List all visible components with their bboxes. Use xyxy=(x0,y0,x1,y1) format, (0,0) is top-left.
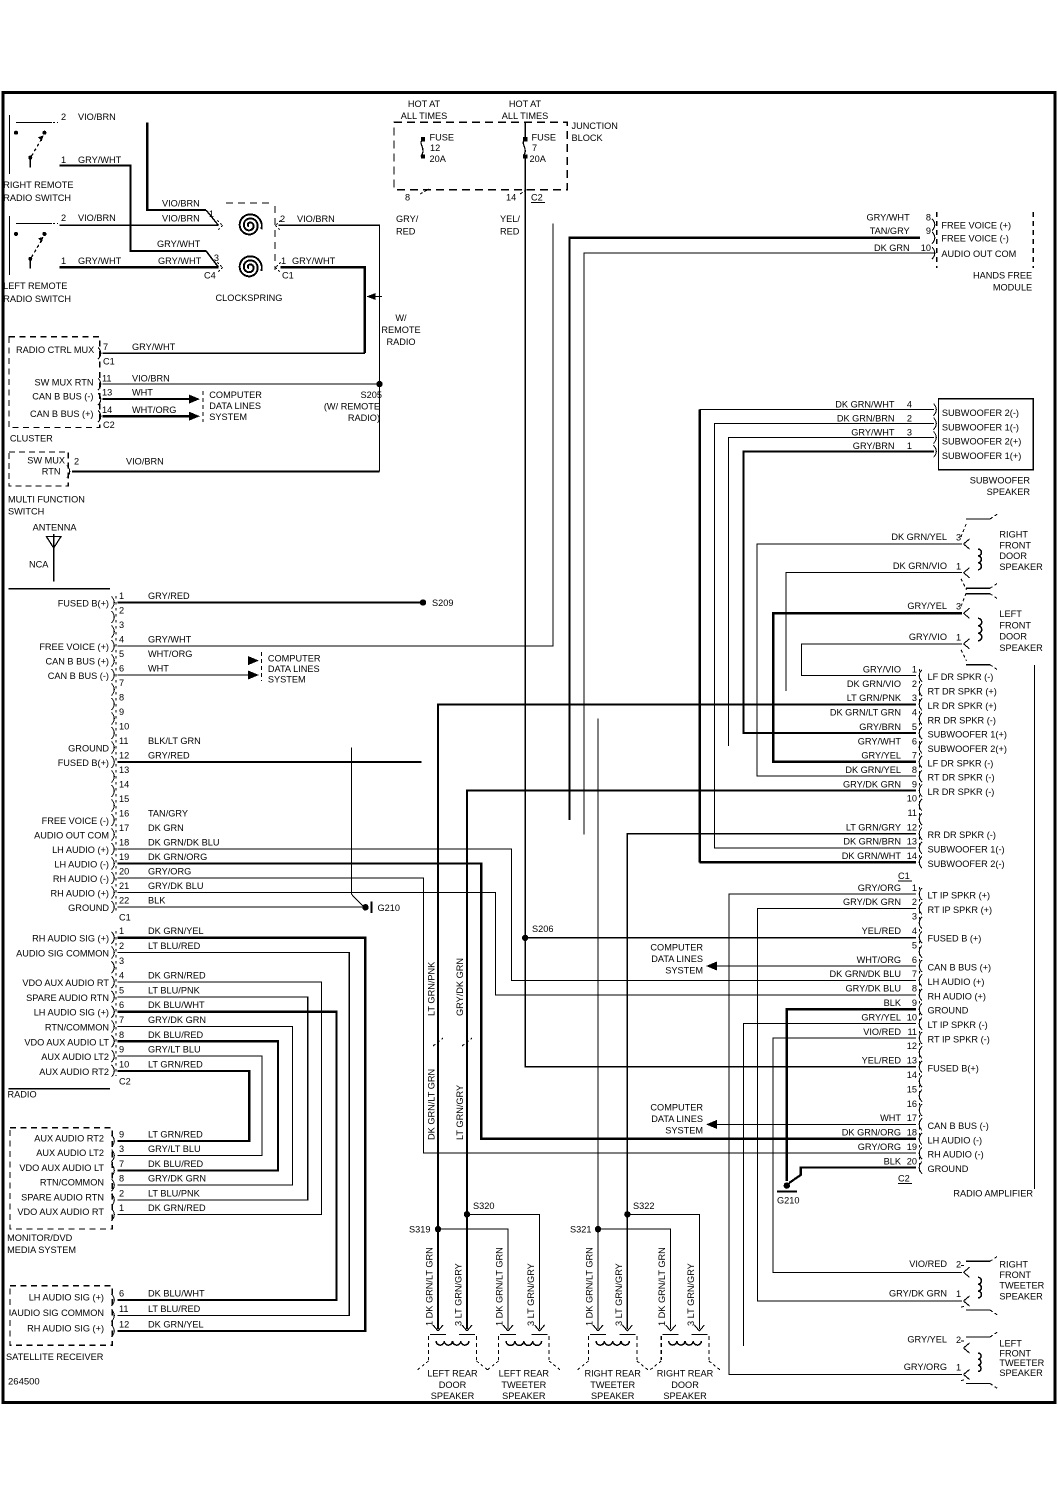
svg-text:5: 5 xyxy=(912,722,917,732)
svg-text:DK BLU/RED: DK BLU/RED xyxy=(148,1159,204,1169)
svg-text:S205: S205 xyxy=(361,390,382,400)
svg-text:DK GRN: DK GRN xyxy=(148,823,184,833)
svg-text:GRY/YEL: GRY/YEL xyxy=(861,751,901,761)
svg-text:DATA LINES: DATA LINES xyxy=(651,1114,703,1124)
radio C1 pin 17 bracket xyxy=(112,829,115,841)
svg-text:1 DK GRN/LT GRN: 1 DK GRN/LT GRN xyxy=(657,1247,667,1326)
svg-text:8: 8 xyxy=(912,765,917,775)
radio C2 pin 4 bracket xyxy=(112,976,115,988)
wire amp p17 WHT computer arrow xyxy=(717,1123,916,1125)
right rear tweeter speaker xyxy=(576,1325,649,1401)
svg-text:DK GRN/ORG: DK GRN/ORG xyxy=(842,1128,901,1138)
svg-text:20: 20 xyxy=(119,867,129,877)
wire radio p4 GRY/WHT to hands-free xyxy=(118,224,554,647)
svg-text:14: 14 xyxy=(119,780,129,790)
radio C1 pin 12 bracket xyxy=(112,756,115,768)
svg-text:GRY/YEL: GRY/YEL xyxy=(907,1335,947,1345)
svg-text:VIO/BRN: VIO/BRN xyxy=(126,457,164,467)
svg-text:LT GRN/PNK: LT GRN/PNK xyxy=(427,961,437,1016)
svg-text:SYSTEM: SYSTEM xyxy=(665,1126,703,1136)
wire S320 to left rear tweeter p3 xyxy=(467,1214,540,1329)
svg-text:DATA LINES: DATA LINES xyxy=(268,664,320,674)
splice S322 xyxy=(624,1211,630,1217)
wire diag to clockspring pin3 xyxy=(206,251,219,267)
svg-text:10: 10 xyxy=(119,1059,129,1069)
svg-text:RADIO SWITCH: RADIO SWITCH xyxy=(3,294,71,304)
svg-text:LF DR SPKR (-): LF DR SPKR (-) xyxy=(928,758,994,768)
svg-text:VIO/BRN: VIO/BRN xyxy=(78,213,116,223)
svg-text:7: 7 xyxy=(103,342,108,352)
svg-text:CAN B BUS (+): CAN B BUS (+) xyxy=(30,409,94,419)
svg-text:1 DK GRN/LT GRN: 1 DK GRN/LT GRN xyxy=(585,1247,595,1326)
svg-text:GRY/WHT: GRY/WHT xyxy=(851,427,895,437)
svg-text:GRY/YEL: GRY/YEL xyxy=(861,1012,901,1022)
svg-text:14: 14 xyxy=(102,405,112,415)
radio C2 pin 3 bracket xyxy=(112,961,115,973)
svg-text:S322: S322 xyxy=(633,1201,654,1211)
wire amp p11 VIO/RED to right front tweeter p2 xyxy=(773,1038,962,1272)
svg-text:FRONT: FRONT xyxy=(999,1348,1031,1358)
radio C1 pin 18 bracket xyxy=(112,843,115,855)
svg-text:7: 7 xyxy=(119,678,124,688)
wire cluster pin11 VIO/BRN xyxy=(102,383,379,385)
wire lf front door p1 GRY/VIO to amp p1 xyxy=(802,644,962,676)
wire cluster pin14 WHT/ORG xyxy=(102,415,189,417)
fuse 7 20A xyxy=(523,137,527,141)
svg-text:CAN B BUS (-): CAN B BUS (-) xyxy=(48,671,109,681)
radio C1 connector edge xyxy=(115,596,117,912)
svg-text:WHT/ORG: WHT/ORG xyxy=(132,405,176,415)
svg-text:14: 14 xyxy=(907,851,917,861)
radio C2 pin 5 bracket xyxy=(112,991,115,1003)
radio C1 pin 9 bracket xyxy=(112,713,115,725)
svg-text:GRY/ORG: GRY/ORG xyxy=(148,867,191,877)
svg-text:8: 8 xyxy=(119,693,124,703)
svg-text:DK GRN/LT GRN: DK GRN/LT GRN xyxy=(830,708,901,718)
wire radio p22 BLK to G210 xyxy=(118,906,365,908)
svg-text:C1: C1 xyxy=(898,871,910,881)
monitor pin 2 xyxy=(112,1194,115,1206)
wire right switch pin2 VIO/BRN xyxy=(147,122,206,210)
svg-text:GROUND: GROUND xyxy=(928,1006,969,1016)
svg-text:8: 8 xyxy=(119,1030,124,1040)
wire amp p9 BLK to G210 xyxy=(787,1009,916,1181)
svg-text:17: 17 xyxy=(119,823,129,833)
wire clockspring pin2 VIO/BRN xyxy=(279,225,380,471)
svg-text:18: 18 xyxy=(119,838,129,848)
wire radio C2 pin 8 loop xyxy=(118,1041,278,1170)
svg-text:SUBWOOFER 1(+): SUBWOOFER 1(+) xyxy=(928,730,1007,740)
svg-text:12: 12 xyxy=(119,1320,129,1330)
wire S321 to right rear door p1 xyxy=(598,1229,671,1329)
svg-text:RADIO: RADIO xyxy=(8,1090,37,1100)
wire left switch pin2 VIO/BRN xyxy=(60,224,219,226)
svg-text:RADIO: RADIO xyxy=(386,337,415,347)
svg-text:FREE VOICE (+): FREE VOICE (+) xyxy=(941,221,1011,231)
radio C1 pin 6 bracket xyxy=(112,669,115,681)
svg-text:SPEAKER: SPEAKER xyxy=(431,1391,475,1401)
svg-text:5: 5 xyxy=(912,940,917,950)
svg-text:LEFT: LEFT xyxy=(999,1339,1022,1349)
svg-text:C2: C2 xyxy=(103,420,115,430)
svg-text:5: 5 xyxy=(119,649,124,659)
computer data lines system (radio) xyxy=(261,652,263,681)
svg-text:9: 9 xyxy=(119,1129,124,1139)
svg-text:FREE VOICE (-): FREE VOICE (-) xyxy=(941,234,1008,244)
svg-text:6: 6 xyxy=(119,1000,124,1010)
right rear door speaker xyxy=(649,1325,722,1401)
wire left switch pin1 GRY/WHT xyxy=(60,266,219,268)
svg-text:TWEETER: TWEETER xyxy=(999,1358,1044,1368)
svg-text:1: 1 xyxy=(119,1203,124,1213)
svg-text:CAN B BUS (-): CAN B BUS (-) xyxy=(928,1121,989,1131)
left front tweeter speaker xyxy=(966,1336,990,1338)
svg-text:FRONT: FRONT xyxy=(999,540,1031,550)
svg-text:LT BLU/PNK: LT BLU/PNK xyxy=(148,985,201,995)
radio C1 pin 22 bracket xyxy=(112,901,115,913)
svg-text:DK GRN/VIO: DK GRN/VIO xyxy=(847,679,901,689)
svg-text:C1: C1 xyxy=(282,271,294,281)
wire amp p2 GRY/DK GRN to right front tweeter p1 xyxy=(757,908,962,1301)
svg-text:1: 1 xyxy=(912,665,917,675)
monitor pin 3 xyxy=(112,1150,115,1162)
svg-text:1: 1 xyxy=(61,256,66,266)
svg-text:1 DK GRN/LT GRN: 1 DK GRN/LT GRN xyxy=(425,1247,435,1326)
svg-text:3: 3 xyxy=(119,956,124,966)
wire amp p3 LT GRN/PNK bus xyxy=(438,704,916,1329)
svg-text:GRY/WHT: GRY/WHT xyxy=(158,256,202,266)
wire radio C2 pin 1 loop xyxy=(118,938,366,1331)
svg-text:19: 19 xyxy=(119,852,129,862)
svg-text:RADIO): RADIO) xyxy=(348,413,380,423)
svg-text:3 LT GRN/GRY: 3 LT GRN/GRY xyxy=(686,1263,696,1326)
svg-text:3: 3 xyxy=(912,912,917,922)
svg-text:GROUND: GROUND xyxy=(928,1164,969,1174)
svg-text:GRY/DK GRN: GRY/DK GRN xyxy=(843,897,901,907)
svg-text:11: 11 xyxy=(119,736,129,746)
svg-text:18: 18 xyxy=(907,1128,917,1138)
monitor pin 1 xyxy=(112,1209,115,1221)
svg-text:FUSED B(+): FUSED B(+) xyxy=(58,758,109,768)
svg-text:2: 2 xyxy=(61,112,66,122)
svg-text:FRONT: FRONT xyxy=(999,1270,1031,1280)
svg-text:9: 9 xyxy=(912,998,917,1008)
svg-text:3: 3 xyxy=(956,533,961,543)
svg-text:LH AUDIO (+): LH AUDIO (+) xyxy=(52,845,109,855)
svg-text:1: 1 xyxy=(912,883,917,893)
svg-text:1: 1 xyxy=(281,256,286,266)
svg-text:RADIO SWITCH: RADIO SWITCH xyxy=(3,193,71,203)
svg-text:WHT: WHT xyxy=(880,1113,901,1123)
svg-text:GRY/DK GRN: GRY/DK GRN xyxy=(148,1015,206,1025)
svg-text:22: 22 xyxy=(119,896,129,906)
svg-text:LH AUDIO SIG (+): LH AUDIO SIG (+) xyxy=(29,1293,104,1303)
svg-text:2: 2 xyxy=(907,413,912,423)
svg-text:ALL TIMES: ALL TIMES xyxy=(401,111,447,121)
svg-text:RIGHT REAR: RIGHT REAR xyxy=(657,1369,714,1379)
svg-text:20: 20 xyxy=(907,1156,917,1166)
svg-text:MODULE: MODULE xyxy=(993,283,1032,293)
radio C1 pin 10 bracket xyxy=(112,727,115,739)
svg-text:GRY/WHT: GRY/WHT xyxy=(292,256,336,266)
svg-text:RTN/COMMON: RTN/COMMON xyxy=(40,1178,104,1188)
computer data lines system (cluster) xyxy=(202,391,204,422)
svg-text:VDO AUX AUDIO LT: VDO AUX AUDIO LT xyxy=(19,1163,104,1173)
svg-text:RH AUDIO (-): RH AUDIO (-) xyxy=(53,874,109,884)
radio box bottom line xyxy=(9,1088,110,1090)
radio C1 pin 2 bracket xyxy=(112,611,115,623)
svg-text:10: 10 xyxy=(921,243,931,253)
wire SW MUX RTN VIO/BRN xyxy=(72,470,380,472)
svg-text:RIGHT REAR: RIGHT REAR xyxy=(584,1369,641,1379)
svg-text:C2: C2 xyxy=(119,1077,131,1087)
svg-text:LT IP SPKR (-): LT IP SPKR (-) xyxy=(928,1020,988,1030)
svg-text:YEL/RED: YEL/RED xyxy=(862,926,902,936)
wire radio C2 pin 7 loop xyxy=(118,1027,293,1186)
wire subwoofer p2 to amp p13 xyxy=(714,424,934,848)
clockspring xyxy=(204,203,336,303)
svg-text:FUSE: FUSE xyxy=(532,133,557,143)
svg-text:FUSED B(+): FUSED B(+) xyxy=(928,1063,979,1073)
svg-text:GRY/DK BLU: GRY/DK BLU xyxy=(846,984,901,994)
fuse 12 20A xyxy=(421,137,425,141)
svg-text:1 DK GRN/LT GRN: 1 DK GRN/LT GRN xyxy=(495,1247,505,1326)
svg-text:SW MUX: SW MUX xyxy=(27,456,65,466)
svg-text:GRY/WHT: GRY/WHT xyxy=(78,256,122,266)
splice S206 xyxy=(522,935,528,941)
wire cluster pin7 GRY/WHT xyxy=(102,352,364,354)
wire amp p6 WHT/ORG computer arrow xyxy=(717,965,916,967)
svg-text:LT IP SPKR (+): LT IP SPKR (+) xyxy=(928,891,991,901)
satellite pin 12 xyxy=(112,1325,115,1337)
wire radio p21 GRY/DK BLU to amp p8 xyxy=(118,893,917,995)
svg-text:SUBWOOFER 1(+): SUBWOOFER 1(+) xyxy=(942,451,1021,461)
svg-text:HOT AT: HOT AT xyxy=(509,99,542,109)
svg-text:2: 2 xyxy=(61,213,66,223)
svg-text:7: 7 xyxy=(119,1159,124,1169)
right front tweeter speaker xyxy=(966,1260,990,1262)
cluster xyxy=(9,337,115,444)
svg-text:RIGHT: RIGHT xyxy=(999,530,1028,540)
wire lf front door p3 GRY/YEL to amp p7 xyxy=(773,613,962,762)
svg-text:SPEAKER: SPEAKER xyxy=(999,1368,1043,1378)
ground G210 (radio) xyxy=(362,904,368,910)
splice S209 xyxy=(420,599,426,605)
svg-text:SYSTEM: SYSTEM xyxy=(209,412,247,422)
svg-text:LT GRN/RED: LT GRN/RED xyxy=(148,1059,203,1069)
svg-text:WHT/ORG: WHT/ORG xyxy=(857,955,901,965)
svg-text:DK GRN/RED: DK GRN/RED xyxy=(148,1203,206,1213)
computer arrow p5 row xyxy=(248,656,259,665)
svg-text:(W/ REMOTE: (W/ REMOTE xyxy=(324,402,380,412)
wire YEL/RED to amp pin4 xyxy=(525,937,916,939)
svg-text:LT BLU/RED: LT BLU/RED xyxy=(148,1304,201,1314)
svg-text:CAN B BUS (+): CAN B BUS (+) xyxy=(928,963,992,973)
svg-text:TAN/GRY: TAN/GRY xyxy=(870,226,910,236)
svg-text:LF DR SPKR (-): LF DR SPKR (-) xyxy=(928,672,994,682)
svg-text:LH AUDIO SIG (+): LH AUDIO SIG (+) xyxy=(34,1008,109,1018)
svg-text:9: 9 xyxy=(912,779,917,789)
svg-text:HOT AT: HOT AT xyxy=(408,99,441,109)
radio C1 pin 13 bracket xyxy=(112,771,115,783)
svg-text:8: 8 xyxy=(912,984,917,994)
svg-text:3: 3 xyxy=(907,427,912,437)
svg-text:10: 10 xyxy=(907,794,917,804)
svg-text:11: 11 xyxy=(119,1304,129,1314)
svg-text:BLK: BLK xyxy=(884,1156,902,1166)
svg-text:5: 5 xyxy=(119,985,124,995)
svg-text:DK GRN/YEL: DK GRN/YEL xyxy=(148,926,204,936)
svg-text:DK GRN/RED: DK GRN/RED xyxy=(148,971,206,981)
svg-text:SUBWOOFER 1(-): SUBWOOFER 1(-) xyxy=(928,844,1005,854)
svg-text:AUDIO SIG COMMON: AUDIO SIG COMMON xyxy=(16,949,109,959)
svg-text:WHT: WHT xyxy=(148,664,169,674)
svg-text:LH AUDIO (-): LH AUDIO (-) xyxy=(54,860,109,870)
svg-text:GRY/DK GRN: GRY/DK GRN xyxy=(843,779,901,789)
svg-text:SUBWOOFER: SUBWOOFER xyxy=(970,476,1031,486)
svg-text:1: 1 xyxy=(119,926,124,936)
radio C2 pin 9 bracket xyxy=(112,1050,115,1062)
svg-text:2: 2 xyxy=(956,1335,961,1345)
wire amp p20 BLK to G210 xyxy=(789,1168,916,1183)
wire subwoofer p1 to amp p5 xyxy=(743,451,934,733)
svg-text:C4: C4 xyxy=(204,271,216,281)
svg-text:12: 12 xyxy=(119,751,129,761)
svg-text:GRY/ORG: GRY/ORG xyxy=(858,883,901,893)
svg-text:VDO AUX AUDIO LT: VDO AUX AUDIO LT xyxy=(24,1037,109,1047)
wire radio p6 WHT to computer xyxy=(118,674,249,676)
svg-text:3: 3 xyxy=(214,253,219,263)
amp C1 connector edge xyxy=(919,669,921,866)
wire right switch pin1 GRY/WHT xyxy=(60,166,207,251)
radio C1 pin 19 bracket xyxy=(112,858,115,870)
svg-text:DK BLU/WHT: DK BLU/WHT xyxy=(148,1000,205,1010)
svg-text:GRY/: GRY/ xyxy=(396,214,419,224)
svg-text:YEL/RED: YEL/RED xyxy=(862,1056,902,1066)
svg-text:11: 11 xyxy=(907,1027,917,1037)
svg-text:S206: S206 xyxy=(532,924,553,934)
svg-text:4: 4 xyxy=(119,971,124,981)
wire radio p20 GRY/ORG to amp p19 xyxy=(118,878,917,1153)
svg-text:2: 2 xyxy=(74,457,79,467)
svg-text:13: 13 xyxy=(907,1056,917,1066)
svg-text:MULTI FUNCTION: MULTI FUNCTION xyxy=(8,495,85,505)
svg-text:2: 2 xyxy=(119,1188,124,1198)
svg-text:GRY/WHT: GRY/WHT xyxy=(148,635,192,645)
svg-text:1: 1 xyxy=(956,633,961,643)
svg-text:VIO/BRN: VIO/BRN xyxy=(297,214,335,224)
svg-text:RT DR SPKR (+): RT DR SPKR (+) xyxy=(928,687,997,697)
wire rt front door p1 DK GRN/VIO to amp p2 xyxy=(786,573,962,691)
svg-text:CAN B BUS (-): CAN B BUS (-) xyxy=(32,392,93,402)
left remote radio switch xyxy=(3,213,121,304)
svg-text:GRY/LT BLU: GRY/LT BLU xyxy=(148,1144,201,1154)
svg-text:GROUND: GROUND xyxy=(68,744,109,754)
svg-text:GRY/YEL: GRY/YEL xyxy=(907,601,947,611)
radio C1 pin 11 bracket xyxy=(112,742,115,754)
radio C2 pin 1 bracket xyxy=(112,932,115,944)
radio C2 pin 8 bracket xyxy=(112,1035,115,1047)
svg-text:GRY/WHT: GRY/WHT xyxy=(78,155,122,165)
svg-text:C2: C2 xyxy=(898,1174,910,1184)
wire DK GRN hands-free to radio p17 xyxy=(584,253,935,834)
radio C1 pin 7 bracket xyxy=(112,684,115,696)
svg-text:DK GRN/DK BLU: DK GRN/DK BLU xyxy=(830,969,901,979)
wire radio C2 pin 10 loop xyxy=(118,1071,250,1141)
svg-text:FUSE: FUSE xyxy=(430,133,455,143)
svg-text:2: 2 xyxy=(912,679,917,689)
monitor pin 9 xyxy=(112,1135,115,1147)
amp C2 connector edge xyxy=(919,887,921,1172)
svg-text:ANTENNA: ANTENNA xyxy=(33,523,78,533)
svg-text:DK GRN/ORG: DK GRN/ORG xyxy=(148,852,207,862)
radio C2 pin 7 bracket xyxy=(112,1021,115,1033)
wire amp p1 GRY/ORG to left front tweeter p1 xyxy=(729,894,962,1375)
svg-text:LT GRN/GRY: LT GRN/GRY xyxy=(846,822,901,832)
radio C1 pin 8 bracket xyxy=(112,698,115,710)
svg-text:14: 14 xyxy=(506,193,516,203)
wire radio p12 GRY/RED xyxy=(118,761,422,763)
svg-text:VIO/BRN: VIO/BRN xyxy=(132,374,170,384)
svg-text:LEFT REAR: LEFT REAR xyxy=(427,1369,478,1379)
svg-text:DK BLU/RED: DK BLU/RED xyxy=(148,1030,204,1040)
svg-text:RT IP SPKR (+): RT IP SPKR (+) xyxy=(928,905,993,915)
svg-text:SUBWOOFER 1(-): SUBWOOFER 1(-) xyxy=(942,422,1019,432)
wire radio C2 pin 2 loop xyxy=(118,953,350,1316)
svg-text:AUX AUDIO LT2: AUX AUDIO LT2 xyxy=(36,1148,104,1158)
svg-text:GRY/LT BLU: GRY/LT BLU xyxy=(148,1045,201,1055)
svg-text:1: 1 xyxy=(956,1363,961,1373)
svg-text:C2: C2 xyxy=(531,193,543,203)
svg-text:4: 4 xyxy=(907,399,912,409)
splice S205 xyxy=(376,381,382,387)
svg-text:GRY/WHT: GRY/WHT xyxy=(157,239,201,249)
svg-text:RT DR SPKR (-): RT DR SPKR (-) xyxy=(928,773,995,783)
svg-text:14: 14 xyxy=(907,1070,917,1080)
svg-text:SPEAKER: SPEAKER xyxy=(502,1391,546,1401)
svg-text:S320: S320 xyxy=(473,1201,494,1211)
svg-text:1: 1 xyxy=(907,441,912,451)
svg-text:SPEAKER: SPEAKER xyxy=(591,1391,635,1401)
wire radio p18 DK GRN/DK BLU to amp p7 xyxy=(118,849,917,980)
svg-text:TAN/GRY: TAN/GRY xyxy=(148,809,188,819)
svg-text:VDO AUX AUDIO RT: VDO AUX AUDIO RT xyxy=(17,1207,104,1217)
svg-text:RIGHT: RIGHT xyxy=(999,1259,1028,1269)
svg-text:3 LT GRN/GRY: 3 LT GRN/GRY xyxy=(454,1263,464,1326)
svg-text:SYSTEM: SYSTEM xyxy=(665,966,703,976)
svg-text:3: 3 xyxy=(119,620,124,630)
svg-text:COMPUTER: COMPUTER xyxy=(650,1103,703,1113)
radio C1 pin 16 bracket xyxy=(112,814,115,826)
subwoofer speaker box xyxy=(939,399,1034,497)
wire radio C2 pin 4 loop xyxy=(118,982,322,1215)
svg-text:LT GRN/RED: LT GRN/RED xyxy=(148,1129,203,1139)
svg-text:S319: S319 xyxy=(409,1225,430,1235)
svg-text:COMPUTER: COMPUTER xyxy=(268,654,321,664)
svg-text:NCA: NCA xyxy=(29,560,49,570)
svg-text:DK GRN/DK BLU: DK GRN/DK BLU xyxy=(148,838,219,848)
svg-text:RR DR SPKR (-): RR DR SPKR (-) xyxy=(928,830,996,840)
svg-text:10: 10 xyxy=(119,722,129,732)
radio C1 pin 15 bracket xyxy=(112,800,115,812)
svg-text:SPEAKER: SPEAKER xyxy=(999,1291,1043,1301)
svg-text:SYSTEM: SYSTEM xyxy=(268,675,306,685)
svg-text:DOOR: DOOR xyxy=(999,632,1027,642)
wire radio p11 BLK/LT GRN ground xyxy=(351,748,364,908)
svg-text:G210: G210 xyxy=(378,903,400,913)
svg-text:WHT: WHT xyxy=(132,388,153,398)
svg-text:LT GRN/GRY: LT GRN/GRY xyxy=(455,1085,465,1140)
